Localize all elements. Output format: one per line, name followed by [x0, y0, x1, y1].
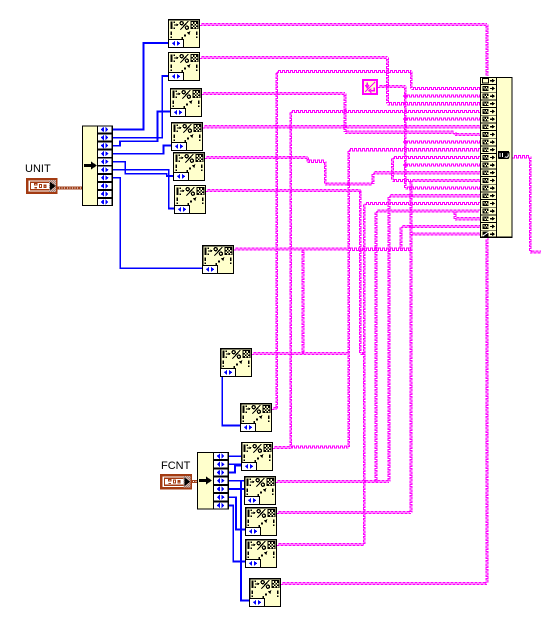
wire index1 c1 to n1	[113, 43, 168, 130]
wire index2 c3 to n10 c	[229, 466, 241, 473]
node n8 Format Into String	[221, 349, 252, 377]
node index2 index array	[198, 453, 229, 510]
wire FCNT to index2 (dotted brown)	[192, 480, 198, 483]
node n7 Format Into String	[203, 246, 234, 274]
node n5 Format Into String	[174, 153, 205, 181]
control terminal FCNT	[161, 475, 191, 488]
svg-text:UNIT: UNIT	[25, 163, 51, 175]
node n12 Format Into String	[246, 508, 277, 536]
node n2 Format Into String	[169, 53, 200, 81]
wire n14 out up to concat cell21 (bottom entry)	[281, 238, 488, 584]
wire n9 out up to concat cell2	[272, 70, 480, 409]
node n4 Format Into String	[172, 123, 203, 151]
wire index1 c2 to n2	[113, 76, 168, 138]
junction J4 conv branch cell12	[403, 163, 408, 168]
junction J1 conv branch cell3	[403, 94, 408, 99]
wire n11 out branches	[276, 156, 480, 512]
wire concat cell18 feed	[375, 210, 480, 482]
wire index1 c4 to n4	[113, 146, 171, 154]
wire n3 out to concat cell8	[202, 92, 480, 135]
wire n8 out	[252, 249, 349, 355]
wire index1 c6 to n6	[113, 170, 174, 209]
wire n12 out along bottom	[277, 511, 411, 513]
junction J2 conv branch cell6	[403, 117, 408, 122]
node U_concat Concatenate Strings (expanded)	[481, 77, 512, 238]
node n6 Format Into String	[175, 186, 206, 214]
wire n8 branch to n9	[222, 377, 240, 426]
wire n1 out to concat cell1 (top entry)	[200, 23, 488, 75]
wire n2 out to concat cell4	[200, 56, 480, 104]
wire index2 c5 to n11 b	[229, 488, 244, 490]
wire n5 out to concat cell13	[205, 156, 480, 185]
control terminal UNIT	[27, 179, 56, 193]
wire index1 c3 to n3	[113, 112, 170, 146]
node n3 Format Into String	[171, 89, 202, 117]
wire n13 out up to concat cell17	[277, 202, 480, 545]
node conv string conversion icon	[363, 80, 377, 94]
wire index2 c2 to n10 b	[229, 463, 241, 465]
wire index2 c4 branch to n14	[241, 481, 249, 601]
wire n4 out to concat cell7	[203, 126, 480, 128]
wire concat cell19 feed	[454, 211, 480, 220]
wire index2 c7 to n13	[229, 505, 245, 561]
node n9 Format Into String	[241, 404, 272, 432]
wire index1 c7 to n7	[113, 178, 202, 268]
wire index2 c4 to n11 a	[229, 480, 244, 482]
node index1 index array	[83, 126, 113, 206]
node n11 Format Into String	[245, 477, 276, 505]
wire n6 out down to junction	[206, 189, 364, 354]
wire index2 c6 to n12	[229, 497, 245, 529]
junction J3 conv branch cell9	[403, 140, 408, 145]
node n10 Format Into String	[242, 443, 273, 471]
node n14 Format Into String	[250, 579, 281, 607]
svg-text:FCNT: FCNT	[161, 460, 191, 472]
wire n10 out up to concat cell5	[273, 110, 480, 448]
wire n7 out loop to concat cell10	[234, 149, 480, 449]
node n1 Format Into String	[169, 20, 200, 48]
wire index2 c1 to n10 a	[229, 455, 241, 457]
wire index1 c5 to n5	[113, 162, 173, 176]
wire conv out with branches to cells 3 6 9 12 15	[378, 85, 480, 189]
node n13 Format Into String	[246, 540, 277, 568]
wire UNIT to index1 (dotted brown)	[58, 186, 83, 189]
wire concat output to edge	[513, 156, 541, 254]
